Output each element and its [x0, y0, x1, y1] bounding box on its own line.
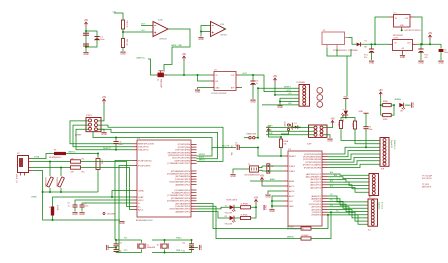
power +5V [428, 32, 433, 40]
wire [148, 59, 156, 75]
wire AREF [250, 178, 284, 181]
svg-text:R10 4.7k: R10 4.7k [126, 21, 128, 28]
svg-text:GND: GND [359, 111, 364, 113]
wire UGND trunk [31, 171, 120, 221]
svg-text:MISO/SCK: MISO/SCK [422, 187, 432, 189]
svg-text:RN2D: RN2D [383, 119, 388, 121]
wire [345, 99, 347, 110]
resistor RN2D [381, 105, 394, 121]
svg-text:MF-MSMF050-2: MF-MSMF050-2 [49, 157, 61, 159]
svg-text:IO1: IO1 [336, 210, 339, 212]
svg-text:(ADC5/SCL)PC5: (ADC5/SCL)PC5 [306, 173, 322, 176]
svg-text:UGND: UGND [31, 197, 37, 199]
wire icsp reset [70, 121, 133, 144]
power +5V [254, 196, 259, 204]
svg-text:RESET: RESET [283, 122, 285, 128]
wire VUSB [31, 154, 54, 159]
wire +5V rail [167, 74, 211, 76]
svg-text:XTAL1/PC0: XTAL1/PC0 [138, 146, 149, 149]
resistor R11 [121, 39, 127, 48]
ground [230, 175, 236, 179]
svg-text:VIN: VIN [288, 103, 292, 105]
svg-text:XTAL1: XTAL1 [289, 170, 296, 173]
wire [85, 27, 87, 52]
svg-text:XTAL1: XTAL1 [176, 249, 182, 252]
hole MT2 [317, 95, 323, 101]
svg-text:(ADC2)PC2: (ADC2)PC2 [310, 181, 321, 184]
svg-text:(PD0/MISO/PCINT3)PB3: (PD0/MISO/PCINT3)PB3 [168, 152, 191, 154]
connector POWER [297, 82, 310, 106]
wire [405, 104, 411, 106]
svg-text:(AIN0)PD6: (AIN0)PD6 [311, 198, 322, 201]
wire to AD1 [328, 171, 370, 175]
wire XTAL2 route [117, 166, 133, 252]
wire to IOH3 [328, 154, 380, 159]
svg-text:(CTS/HWB/TO/INT7)PD7: (CTS/HWB/TO/INT7)PD7 [167, 195, 191, 197]
svg-text:(INT0)PD2: (INT0)PD2 [311, 209, 321, 211]
resistor RN1A 10K [279, 139, 288, 148]
wire branch [346, 118, 355, 122]
svg-text:RESET-EN: RESET-EN [247, 134, 257, 136]
wire D+ [31, 167, 71, 169]
capacitor C1 [94, 37, 104, 42]
resistor RN3C [234, 214, 250, 219]
wire [197, 207, 230, 218]
svg-text:(PCINT1/OC1A)PB1: (PCINT1/OC1A)PB1 [303, 164, 322, 167]
svg-text:ADC7: ADC7 [289, 195, 295, 198]
svg-text:GND: GND [216, 88, 221, 90]
wire GND pins [279, 98, 299, 104]
transistor T1 [156, 71, 167, 89]
wire [271, 201, 284, 209]
svg-text:GND: GND [418, 62, 424, 65]
svg-text:IC5A: IC5A [158, 19, 163, 22]
connector ICSP1 [86, 115, 101, 132]
svg-text:(PDI/MOSI/PCINT2)PB2: (PDI/MOSI/PCINT2)PB2 [168, 155, 191, 157]
connector ICSP2 [307, 125, 327, 146]
svg-text:TP_VUCAP: TP_VUCAP [422, 175, 433, 178]
svg-text:(SCLK/PCINT1)PB1: (SCLK/PCINT1)PB1 [172, 158, 191, 160]
node +5V label [112, 12, 116, 14]
wire to IOL8 [328, 215, 369, 224]
text C20 [230, 145, 232, 156]
crystal Q2 [152, 239, 168, 254]
ic ATMEGA8U2 IC3 [133, 138, 197, 222]
svg-text:GND: GND [265, 196, 271, 199]
wire xtal1 row [152, 249, 192, 252]
resistor R6 1M [267, 164, 274, 173]
wire vcc [271, 196, 284, 206]
power +5V [182, 53, 187, 61]
resistor RD- 22R [71, 158, 85, 163]
wire [86, 31, 97, 47]
testpoint GROUND [103, 213, 116, 216]
resistor R1 1k [96, 153, 103, 193]
svg-text:(ADC0)PC0: (ADC0)PC0 [310, 186, 321, 189]
wire to IOL5 [328, 205, 369, 215]
wire +5V out [417, 43, 442, 45]
svg-text:ICSP1: ICSP1 [86, 115, 93, 117]
wire [365, 113, 367, 126]
wire to IOH6 [328, 164, 380, 167]
svg-text:GND: GND [250, 101, 256, 104]
resistor RN2A [381, 100, 394, 107]
label NCP1117 [401, 29, 421, 32]
wire [183, 61, 185, 75]
wire node +5V divider [123, 30, 153, 32]
wire [200, 26, 211, 33]
wire to IOH5 [328, 161, 380, 165]
text AVRISP [75, 134, 82, 137]
svg-text:RESET2: RESET2 [103, 148, 112, 150]
svg-text:+5V: +5V [84, 19, 89, 22]
svg-text:GND: GND [269, 210, 275, 213]
resistor RN2B [337, 121, 342, 129]
wire [98, 104, 105, 121]
power flag +5V [84, 19, 89, 27]
wire to IOL3 [328, 200, 369, 209]
svg-text:(AIN1)PD7: (AIN1)PD7 [311, 195, 322, 198]
svg-text:100n: 100n [369, 129, 373, 131]
svg-text:(TXD1/INT3)PD3: (TXD1/INT3)PD3 [175, 206, 191, 208]
wire to IOL7 [328, 210, 369, 221]
svg-text:IO7: IO7 [330, 194, 333, 196]
ground [83, 53, 89, 57]
svg-text:AVCC: AVCC [138, 208, 144, 211]
svg-text:GND: GND [83, 53, 89, 56]
svg-text:47u: 47u [425, 57, 428, 59]
svg-text:100n: 100n [100, 39, 104, 41]
resistor RN4D 1k [301, 235, 311, 240]
svg-text:C20: C20 [230, 145, 232, 148]
svg-text:(INT5/AIN3)PD4: (INT5/AIN3)PD4 [175, 202, 190, 205]
wire reset trunk [257, 87, 259, 137]
svg-text:YELLOW: YELLOW [225, 223, 233, 225]
wire [380, 97, 382, 115]
svg-text:(OC0B/INT0)PD0: (OC0B/INT0)PD0 [174, 190, 190, 192]
svg-text:+5V: +5V [379, 89, 384, 92]
wire to AD2 [328, 174, 370, 179]
svg-text:1u: 1u [68, 206, 70, 208]
svg-text:(ADC1)PC1: (ADC1)PC1 [310, 184, 321, 187]
svg-text:(SS/PCINT0)PB0: (SS/PCINT0)PB0 [175, 160, 191, 162]
wire to IOL4 [328, 204, 369, 211]
wire MISO net [355, 129, 380, 144]
ground [200, 245, 204, 251]
wire [274, 83, 299, 96]
regulator U3 [211, 70, 240, 95]
wire [269, 134, 282, 140]
ground [198, 38, 204, 42]
svg-text:CSTCE16M0V53-R0: CSTCE16M0V53-R0 [244, 174, 260, 176]
svg-text:LMV358: LMV358 [159, 39, 167, 41]
svg-text:0-7 serial: 0-7 serial [380, 202, 383, 210]
svg-text:47u: 47u [364, 57, 367, 59]
svg-text:BLM21: BLM21 [56, 205, 58, 210]
svg-text:D2: D2 [295, 123, 297, 125]
connector IOL [368, 199, 383, 232]
svg-text:GND: GND [400, 25, 405, 27]
ground label [343, 96, 348, 98]
svg-text:M7: M7 [365, 47, 368, 49]
led L yellow [341, 109, 348, 122]
svg-text:L1: L1 [48, 206, 50, 208]
svg-text:16M: 16M [152, 247, 156, 249]
wire GATE_CMD [164, 29, 190, 72]
wire [262, 183, 284, 187]
svg-text:GND: GND [79, 213, 85, 216]
svg-text:TX/RX LEDS: TX/RX LEDS [226, 199, 238, 201]
svg-text:M8_DTR: M8_DTR [222, 146, 230, 148]
ground [264, 205, 268, 211]
capacitor PC2 [418, 44, 428, 60]
svg-text:+5V: +5V [260, 174, 265, 177]
svg-text:1k RN3C: 1k RN3C [241, 214, 249, 216]
resonator Y2 [244, 164, 262, 177]
wire VIN [262, 103, 299, 105]
wire loop SCK2 [98, 129, 218, 159]
wire [122, 29, 124, 39]
svg-text:GND: GND [277, 106, 283, 109]
svg-text:(RTS/AIN5/INT6)PD6: (RTS/AIN5/INT6)PD6 [171, 197, 191, 200]
jumper RESET-EN [244, 134, 259, 139]
svg-text:100n: 100n [85, 205, 89, 207]
svg-text:GND: GND [369, 62, 375, 65]
wire [114, 13, 123, 20]
svg-text:(XCK/AIN4/PCINT12)PD5: (XCK/AIN4/PCINT12)PD5 [167, 200, 191, 203]
wire icsp2 miso [266, 126, 314, 128]
text note [422, 175, 433, 181]
svg-text:PGB1010603: PGB1010603 [44, 177, 46, 187]
svg-text:GND: GND [343, 96, 348, 98]
ground [412, 102, 416, 108]
ground [120, 52, 126, 56]
wire USBVCC [66, 152, 98, 154]
svg-text:R11 4.7k: R11 4.7k [126, 39, 128, 46]
diode D1 [357, 41, 368, 49]
svg-text:IOL: IOL [368, 230, 371, 232]
ground [250, 100, 256, 104]
ground [119, 222, 125, 226]
svg-text:RESET: RESET [289, 156, 296, 158]
wire loop MISO2 [98, 125, 224, 161]
svg-text:OUT: OUT [407, 43, 411, 45]
wire [341, 116, 347, 121]
svg-text:LP2985-33DBVR: LP2985-33DBVR [211, 93, 227, 95]
svg-text:(ADC3)PC3: (ADC3)PC3 [310, 178, 321, 181]
svg-text:Digital I/O: Digital I/O [378, 202, 381, 210]
svg-text:PC4(PCINT10): PC4(PCINT10) [138, 160, 152, 162]
svg-text:M8RXD: M8RXD [287, 237, 295, 239]
wire [255, 205, 257, 208]
wire UGND pin [111, 191, 133, 199]
wire icsp2 mosi [266, 133, 314, 135]
led TX yellow [225, 205, 236, 214]
diode D2 [293, 123, 301, 129]
svg-text:IO5: IO5 [330, 200, 333, 202]
svg-text:GND: GND [289, 206, 294, 208]
svg-text:1k RN4D: 1k RN4D [301, 235, 309, 237]
ground [101, 133, 107, 137]
capacitor C4 [67, 200, 132, 216]
wire [360, 43, 388, 45]
capacitor PC1 [364, 44, 374, 60]
svg-text:MOSI2: MOSI2 [199, 154, 205, 156]
connector AD [369, 174, 379, 199]
wire [108, 247, 117, 249]
svg-text:SCK2: SCK2 [199, 157, 204, 159]
text note [422, 184, 432, 189]
ground [107, 245, 111, 251]
svg-text:MISO: MISO [268, 126, 273, 128]
svg-text:AREF: AREF [289, 180, 295, 183]
svg-text:+5V: +5V [254, 196, 259, 199]
connector IOH [380, 138, 395, 171]
svg-text:ATMEGA8U2-MU: ATMEGA8U2-MU [136, 219, 153, 222]
wire to AD4 [328, 179, 370, 185]
connector X1 jack [322, 30, 358, 52]
capacitor C9 [439, 44, 448, 60]
wire XTAL2 [262, 165, 284, 167]
wire to IOH4 [328, 157, 380, 162]
svg-text:GND: GND [107, 245, 110, 251]
wire xtal2 row [116, 250, 142, 252]
wire to IOL6 [328, 210, 369, 218]
power +5V [379, 89, 384, 97]
svg-text:(TXD1/INT3)PD3: (TXD1/INT3)PD3 [175, 179, 191, 181]
connector X2 USB [15, 153, 31, 183]
svg-text:GND: GND [101, 133, 107, 136]
wire [429, 40, 431, 44]
svg-text:(PCINT5)PB5: (PCINT5)PB5 [178, 147, 191, 149]
svg-text:100n: 100n [444, 52, 448, 54]
capacitor C8 AREF [364, 127, 373, 131]
ground [277, 106, 283, 110]
svg-text:22p: 22p [182, 243, 185, 245]
wire gnd U3 [198, 88, 211, 90]
capacitor C7 [79, 203, 132, 216]
svg-text:PC2(AIN2/PCINT11): PC2(AIN2/PCINT11) [172, 192, 191, 195]
svg-text:RN2C: RN2C [351, 123, 353, 128]
svg-text:1u: 1u [256, 83, 258, 85]
svg-text:+5V: +5V [330, 117, 335, 120]
wire RESET [258, 86, 299, 88]
wire icsp row2 [73, 125, 133, 147]
capacitor C3 [83, 44, 89, 46]
capacitor C13 [182, 240, 198, 248]
varistor Z2 [56, 168, 65, 188]
wire [240, 87, 243, 89]
svg-text:GND: GND [265, 205, 268, 211]
wire xtal2 row [152, 237, 193, 241]
svg-text:-5.0T3: -5.0T3 [393, 37, 398, 39]
svg-text:+5V: +5V [428, 32, 433, 35]
svg-text:L: L [342, 109, 344, 110]
wire [251, 206, 258, 218]
svg-text:GND: GND [119, 222, 125, 225]
power +5V [266, 125, 271, 133]
svg-text:C4: C4 [67, 203, 69, 205]
wire icsp1 gnd [98, 129, 105, 131]
wire M8TXD [197, 204, 302, 229]
svg-text:USB-B_TH: USB-B_TH [15, 174, 17, 183]
wire EN [198, 75, 211, 81]
svg-text:GND: GND [200, 245, 203, 251]
svg-text:LMV358: LMV358 [220, 34, 227, 36]
svg-text:UGND: UGND [138, 190, 144, 192]
svg-text:XT1: XT1 [124, 238, 127, 240]
svg-text:GND: GND [438, 62, 444, 65]
fuse F1 [49, 150, 66, 160]
wire +3V3 [240, 73, 300, 92]
svg-text:GND: GND [120, 53, 126, 56]
wire [323, 135, 330, 138]
svg-text:D-: D- [138, 203, 140, 205]
svg-text:GND: GND [412, 102, 415, 108]
svg-text:(PCINT6)PB6: (PCINT6)PB6 [178, 144, 191, 146]
inductor L1 [48, 197, 133, 221]
svg-text:Y2: Y2 [248, 164, 250, 166]
ground [438, 61, 444, 65]
svg-text:C10: C10 [119, 243, 122, 245]
wire xtal1 row [115, 238, 142, 241]
wire SCK to IOH1 [328, 147, 380, 154]
svg-text:(ADC4/SDA)PC4: (ADC4/SDA)PC4 [306, 176, 322, 179]
capacitor C12 [114, 248, 122, 253]
svg-text:100n: 100n [230, 152, 232, 156]
svg-text:22p: 22p [182, 251, 185, 253]
wire [280, 148, 282, 157]
svg-text:PGB1010603: PGB1010603 [56, 177, 58, 187]
svg-text:+5V: +5V [182, 53, 187, 56]
ground [369, 61, 375, 65]
svg-text:GND: GND [230, 175, 236, 178]
resistor RD+ 22R [71, 166, 85, 174]
net +3V3 label [286, 90, 292, 92]
ground [418, 61, 424, 65]
wire to AD3 [328, 179, 370, 182]
wire OUT drop [414, 17, 422, 44]
svg-text:UVCC: UVCC [138, 200, 144, 202]
wire [311, 211, 332, 238]
svg-text:USBVCC: USBVCC [136, 58, 146, 60]
power +5V [273, 75, 278, 83]
svg-text:(TXD)PD1: (TXD)PD1 [312, 212, 322, 214]
svg-text:GND: GND [195, 91, 201, 94]
wire D+ to IC3 [81, 168, 133, 210]
regulator IC4 footprint [389, 35, 417, 54]
wire [200, 32, 202, 37]
svg-text:PWM:3,5,6: PWM:3,5,6 [393, 140, 395, 149]
wire DTR [212, 146, 236, 150]
capacitor C14 [182, 247, 194, 253]
svg-text:(RTS/AIN5/INT6)PD6: (RTS/AIN5/INT6)PD6 [171, 170, 191, 173]
svg-text:ICSP: ICSP [307, 144, 312, 146]
svg-text:(INT5/AIN3)PD4: (INT5/AIN3)PD4 [175, 175, 190, 178]
wire adc6 [268, 191, 284, 194]
resistor R10 [121, 20, 127, 29]
svg-text:8U2_MOSI: 8U2_MOSI [422, 178, 432, 180]
wire [323, 126, 333, 128]
op-amp IC5B [211, 22, 227, 37]
svg-text:POWER: POWER [297, 82, 306, 84]
ground [195, 90, 201, 94]
wire resonator gnd [233, 169, 250, 174]
ground [327, 139, 333, 143]
wire to AD5 [328, 185, 370, 189]
resistor RN2C [351, 121, 356, 129]
wire VIN drop [346, 56, 348, 96]
